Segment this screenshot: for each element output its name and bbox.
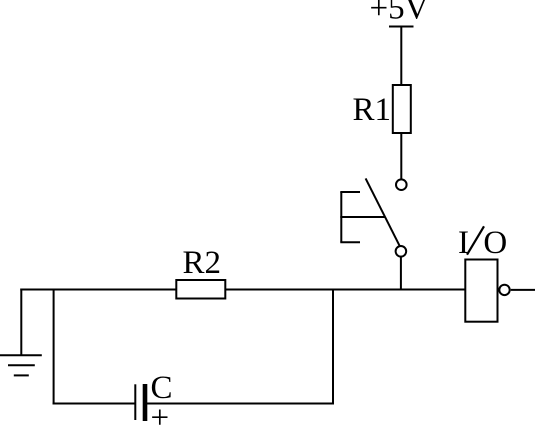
svg-text:R2: R2 — [183, 245, 222, 281]
svg-text:I: I — [458, 225, 469, 261]
svg-text:R1: R1 — [353, 92, 392, 128]
svg-text:O: O — [483, 225, 507, 261]
svg-text:+5V: +5V — [370, 0, 429, 27]
svg-text:+: + — [151, 400, 170, 425]
